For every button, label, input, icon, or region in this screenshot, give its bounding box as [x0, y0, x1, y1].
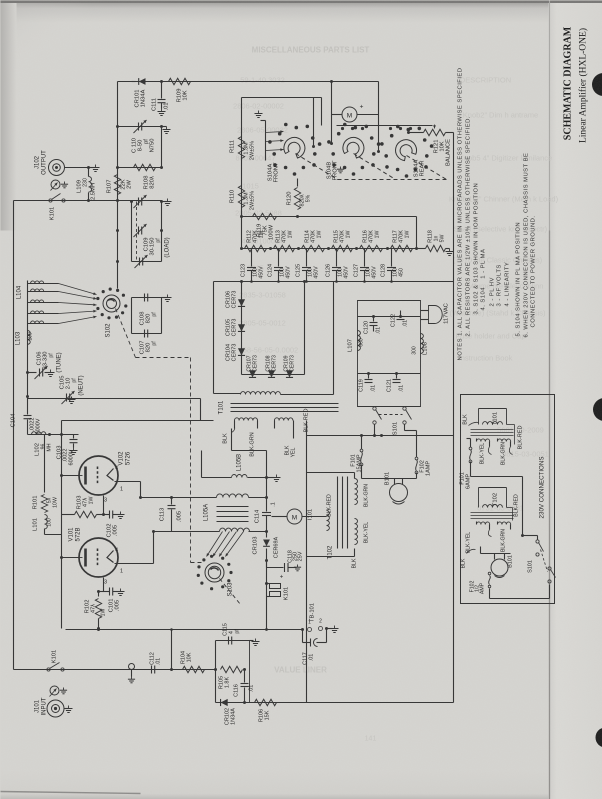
svg-text:M: M — [347, 113, 352, 120]
capacitor C116 — [244, 670, 246, 683]
wire main line y200 — [14, 200, 162, 202]
capacitor C108 box — [131, 298, 133, 334]
T101 core — [231, 403, 339, 405]
230V secondary coils — [477, 522, 490, 525]
svg-text:C119: C119 — [359, 379, 365, 392]
capacitor C106 TUNE variable — [28, 372, 37, 374]
wire cathode V102 — [115, 481, 141, 483]
svg-text:SCHEMATIC DIAGRAM: SCHEMATIC DIAGRAM — [563, 26, 574, 140]
wire R108 row — [118, 167, 162, 169]
svg-text:S103: S103 — [228, 582, 234, 597]
resistor R106 — [255, 699, 277, 705]
svg-text:4 - LINEARITY: 4 - LINEARITY — [505, 262, 511, 307]
hook ground — [129, 664, 135, 670]
svg-text:2: 2 — [319, 619, 322, 625]
inductor L107 — [358, 331, 361, 351]
svg-text:R120: R120 — [287, 192, 293, 206]
ground J101 — [65, 708, 69, 710]
svg-text:230: 230 — [83, 178, 89, 187]
svg-text:T101: T101 — [493, 412, 499, 425]
T102 coils — [355, 479, 358, 505]
wire x241 — [241, 98, 243, 249]
svg-text:V101: V101 — [69, 527, 75, 542]
transformer T102 core — [337, 477, 339, 549]
svg-text:.01: .01 — [309, 654, 315, 662]
S102 gang dashed link — [116, 309, 136, 358]
svg-text:.01: .01 — [156, 658, 162, 665]
S103 dashed — [220, 579, 241, 605]
vertical x306 — [306, 421, 308, 703]
wafer top line — [337, 125, 433, 127]
inductor L104 tapped coil — [27, 281, 29, 344]
svg-text:L103: L103 — [16, 331, 22, 345]
wire filter inner y373 — [358, 373, 421, 375]
svg-text:1: 1 — [120, 487, 123, 493]
svg-text:1W: 1W — [89, 497, 95, 505]
svg-text:.005: .005 — [115, 600, 121, 611]
blower B101 230V — [491, 559, 508, 576]
inductor L105A — [217, 494, 249, 498]
rotary switch S103 — [205, 563, 224, 582]
wafer dashed lines — [296, 154, 338, 180]
svg-text:C127: C127 — [354, 264, 360, 277]
inductor L103 — [28, 331, 31, 345]
svg-text:4: 4 — [115, 466, 118, 472]
svg-text:.005: .005 — [113, 525, 119, 536]
capacitor C124 — [270, 248, 272, 250]
svg-text:J101: J101 — [35, 699, 41, 713]
resistor R113 — [274, 245, 295, 251]
diode CR101 — [132, 81, 136, 83]
wire V101 grid — [103, 578, 105, 592]
meter M101 — [342, 107, 357, 122]
svg-text:.005: .005 — [177, 511, 183, 522]
svg-text:(NEUT): (NEUT) — [79, 375, 85, 395]
svg-text:CR103: CR103 — [253, 536, 259, 554]
switch S101 230V — [536, 540, 539, 543]
ground R118 — [446, 248, 450, 250]
inductor L105B — [232, 475, 248, 478]
punch hole middle — [593, 398, 602, 421]
svg-text:T102: T102 — [328, 545, 334, 559]
svg-text:BLK-GRN: BLK-GRN — [501, 529, 507, 552]
svg-text:450V: 450V — [372, 266, 378, 279]
wire y374 — [242, 374, 305, 376]
svg-text:230V CONNECTIONS: 230V CONNECTIONS — [539, 457, 546, 519]
svg-text:5%: 5% — [306, 194, 312, 202]
svg-text:C125: C125 — [296, 264, 302, 277]
svg-text:CER73: CER73 — [290, 355, 296, 372]
svg-text:L107: L107 — [348, 339, 354, 352]
capacitor C105 NEUT variable — [26, 395, 29, 398]
T102 wires — [354, 473, 356, 479]
T102 230V — [479, 488, 507, 508]
wire right edge x453 — [453, 133, 455, 703]
svg-text:pf: pf — [152, 312, 158, 317]
svg-text:5726: 5726 — [126, 451, 132, 465]
svg-text:BLK-RED: BLK-RED — [518, 426, 524, 450]
svg-text:K101: K101 — [50, 207, 56, 221]
svg-text:.01: .01 — [403, 320, 409, 327]
svg-text:1AMP: 1AMP — [426, 461, 432, 476]
230V primary coils — [477, 439, 490, 442]
capacitor C123 — [241, 248, 243, 250]
svg-text:2.5MH: 2.5MH — [91, 183, 97, 200]
capacitor C120 — [373, 317, 375, 322]
svg-text:10K: 10K — [183, 90, 189, 100]
svg-text:+: + — [360, 104, 364, 111]
svg-text:1N34A: 1N34A — [231, 708, 237, 725]
coil right of I101 — [327, 511, 330, 531]
diode CR107 — [249, 370, 256, 377]
svg-text:1W: 1W — [405, 231, 411, 239]
ground C115 — [232, 640, 258, 642]
svg-text:450V: 450V — [259, 266, 265, 279]
svg-text:BLK-RED: BLK-RED — [327, 494, 333, 517]
vertical x333 bus drop — [333, 282, 335, 395]
svg-text:BLK-YEL: BLK-YEL — [364, 522, 370, 543]
svg-text:REAR: REAR — [420, 160, 426, 176]
resistor R118 — [417, 248, 426, 250]
resistor R119 — [253, 213, 277, 219]
svg-text:S101: S101 — [528, 560, 534, 573]
capacitor C128 — [387, 248, 389, 250]
resistor R104 — [170, 668, 173, 671]
ground C109 — [162, 201, 168, 203]
wire J102 to L109 — [65, 167, 89, 169]
wire bus y216 — [242, 216, 417, 218]
wire C110 row — [118, 126, 162, 128]
ground J102 line — [89, 167, 96, 169]
svg-text:J102: J102 — [35, 155, 41, 169]
wire V102 grid — [103, 496, 105, 515]
wire y434 — [28, 434, 79, 436]
punch hole top — [592, 73, 602, 96]
wire filter inner y316 — [358, 316, 421, 318]
svg-text:100: 100 — [28, 332, 34, 341]
T101 230V — [479, 409, 507, 425]
relay coil K101 — [265, 582, 268, 585]
wire top rail — [118, 81, 379, 83]
svg-text:Linear Amplifier (HXL-ONE): Linear Amplifier (HXL-ONE) — [578, 28, 589, 143]
wire resistor row y248 — [242, 248, 417, 250]
svg-text:.1: .1 — [271, 502, 277, 507]
S103 taps — [207, 532, 223, 557]
resistor R116 — [360, 245, 383, 251]
capacitor C109 variable stack — [131, 202, 133, 262]
svg-text:5W: 5W — [440, 235, 446, 243]
capacitor C122 — [400, 311, 402, 316]
svg-text:6000V: 6000V — [69, 449, 75, 465]
svg-text:BLK: BLK — [223, 433, 229, 444]
svg-text:C122: C122 — [391, 314, 397, 327]
capacitor C118 — [265, 559, 268, 562]
diode CR103 — [266, 532, 268, 538]
transformer T101 secondary — [241, 392, 281, 395]
wire x171 up — [171, 630, 173, 670]
resistor R117 — [391, 245, 413, 251]
wire chassis top y420 — [62, 420, 214, 422]
svg-text:C104: C104 — [11, 413, 17, 428]
svg-text:6. WHEN 230V CONNECTION IS USE: 6. WHEN 230V CONNECTION IS USED, CHASSIS… — [524, 153, 530, 338]
svg-text:R111: R111 — [230, 140, 236, 153]
resistor R109 — [169, 78, 191, 84]
wire x304 — [304, 282, 306, 375]
svg-text:.01: .01 — [164, 102, 170, 110]
svg-text:C123: C123 — [241, 264, 247, 277]
capacitor C111 — [161, 82, 163, 99]
svg-text:C111: C111 — [152, 98, 158, 111]
svg-text:.01: .01 — [399, 385, 405, 392]
resistor R112 — [245, 245, 267, 251]
svg-text:M: M — [292, 515, 297, 522]
fuse F102 — [415, 457, 418, 460]
svg-text:S102: S102 — [106, 323, 112, 338]
wire y531 — [154, 531, 220, 533]
C115/R105 box — [216, 641, 250, 703]
svg-text:10K: 10K — [187, 652, 193, 662]
svg-text:117VAC: 117VAC — [444, 303, 450, 324]
wire y669 — [14, 669, 216, 671]
svg-text:BLK-YEL: BLK-YEL — [480, 443, 486, 464]
ground wafer2 — [340, 167, 342, 170]
tube V101 — [79, 538, 118, 577]
svg-text:3. S102 & S103 SHOWN IN I: 3. S102 & S103 SHOWN IN IOM POSITION — [474, 183, 480, 315]
svg-text:47ƛ: 47ƛ — [91, 604, 97, 613]
svg-text:NOTES 1. ALL CAPACITOR VALUE: NOTES 1. ALL CAPACITOR VALUES ARE IN MIC… — [458, 68, 464, 361]
capacitor C125 — [298, 248, 300, 250]
svg-text:CER73: CER73 — [232, 291, 238, 309]
svg-text:S101: S101 — [393, 422, 399, 436]
capacitor C103 — [73, 435, 75, 439]
svg-text:OUTPUT: OUTPUT — [42, 150, 48, 175]
ground L105B — [267, 477, 275, 479]
svg-text:B101: B101 — [508, 555, 514, 568]
fuse F101 — [360, 449, 363, 452]
ground C110 — [162, 126, 167, 128]
svg-text:3: 3 — [104, 580, 107, 586]
ground TB101 — [327, 628, 333, 630]
capacitor C117 — [302, 630, 304, 643]
ground C108 — [162, 297, 168, 299]
svg-text:R101: R101 — [33, 496, 39, 510]
svg-text:820ƛ: 820ƛ — [150, 176, 156, 189]
svg-text:.01: .01 — [376, 327, 382, 334]
wafer S104A FRONT — [313, 152, 317, 156]
capacitor C110 variable — [138, 123, 140, 131]
wire cathode V101 — [115, 563, 154, 565]
coil secondary row — [220, 528, 250, 531]
svg-text:L108: L108 — [423, 342, 429, 355]
svg-text:BLK: BLK — [352, 558, 358, 568]
diode CR102 — [221, 699, 228, 706]
jack J101 INPUT — [47, 700, 64, 717]
svg-text:R107: R107 — [107, 180, 113, 194]
svg-text:.01: .01 — [249, 685, 255, 693]
svg-text:pf: pf — [152, 341, 158, 346]
svg-text:1W: 1W — [101, 609, 107, 617]
switch S101 — [373, 407, 376, 410]
ground C106 — [45, 372, 51, 374]
wire y629 — [66, 629, 303, 631]
wire bottom edge — [216, 702, 454, 704]
svg-text:1W: 1W — [259, 231, 265, 239]
svg-text:C124: C124 — [268, 264, 274, 277]
svg-text:BLK-RED: BLK-RED — [514, 494, 520, 517]
wire J101 к left border — [13, 669, 15, 671]
svg-text:pf: pf — [235, 629, 241, 634]
svg-text:YEL: YEL — [291, 447, 297, 457]
jack J102 OUTPUT — [49, 160, 65, 176]
capacitor C115 — [228, 637, 230, 645]
inductor L109 — [89, 177, 92, 193]
svg-text:CER73: CER73 — [253, 355, 259, 372]
svg-text:C128: C128 — [381, 264, 387, 277]
svg-text:T101: T101 — [219, 400, 225, 414]
svg-text:CONNECTED TO POWER GROUND.: CONNECTED TO POWER GROUND. — [531, 216, 537, 328]
svg-text:C121: C121 — [387, 379, 393, 392]
ground C118 — [297, 565, 299, 568]
svg-text:INPUT: INPUT — [42, 697, 48, 715]
svg-text:(LOAD): (LOAD) — [165, 237, 171, 257]
svg-text:CER73: CER73 — [272, 355, 278, 372]
wire left border — [13, 201, 15, 670]
capacitor C121 — [396, 374, 398, 379]
svg-text:L101: L101 — [33, 518, 39, 531]
svg-text:pf: pf — [49, 353, 55, 358]
svg-text:C113: C113 — [160, 508, 166, 521]
wafer S104A REAR — [425, 154, 429, 158]
svg-text:N750: N750 — [150, 139, 156, 153]
svg-text:2. ALL RESISTORS ARE 1/2W ±10%: 2. ALL RESISTORS ARE 1/2W ±10% UNLESS OT… — [466, 116, 472, 336]
wire plate V101 — [62, 557, 80, 559]
svg-text:C114: C114 — [255, 509, 261, 523]
svg-text:100: 100 — [47, 518, 53, 527]
wire S102 taps — [27, 344, 29, 399]
wire x213 down — [213, 282, 215, 394]
resistor R105 — [221, 666, 243, 672]
svg-text:1W: 1W — [375, 231, 381, 239]
capacitor C112 — [151, 666, 153, 674]
svg-text:C116: C116 — [234, 684, 240, 697]
plug 117VAC — [421, 310, 429, 312]
svg-text:.01: .01 — [371, 385, 377, 392]
capacitor C104 — [27, 399, 29, 415]
svg-text:CER73: CER73 — [232, 344, 238, 362]
svg-text:I101: I101 — [308, 509, 314, 520]
svg-text:(TUNE): (TUNE) — [57, 352, 63, 372]
capacitor C114 — [266, 498, 268, 512]
svg-text:572B: 572B — [76, 527, 82, 541]
svg-text:K101: K101 — [52, 650, 58, 664]
svg-text:15K: 15K — [265, 710, 271, 720]
ground C111 — [161, 103, 163, 109]
svg-text:R110: R110 — [230, 190, 236, 203]
wire left box vertical x61 — [61, 421, 63, 629]
svg-text:C126: C126 — [326, 264, 332, 277]
wire box top y97 — [242, 97, 322, 99]
capacitor C127 — [356, 248, 358, 250]
svg-text:BLK: BLK — [463, 414, 469, 425]
svg-text:100W: 100W — [269, 224, 275, 240]
230V box — [461, 395, 555, 604]
svg-text:450V: 450V — [314, 266, 320, 279]
svg-text:2 - PL HV: 2 - PL HV — [490, 277, 496, 306]
terminal TB-101 — [301, 628, 304, 631]
capacitor C102 — [109, 511, 111, 519]
wire y497 to L105A — [141, 497, 217, 499]
svg-text:25V: 25V — [298, 551, 304, 561]
resistor R108 — [134, 164, 156, 170]
wire bus y281 — [214, 281, 454, 283]
fuse F101 230V — [469, 447, 472, 450]
capacitor C101 — [99, 591, 110, 593]
wire vertical x200 — [200, 399, 202, 421]
ground top of tubes — [71, 397, 73, 400]
wire x378 corner — [378, 82, 380, 115]
phone jack symbol — [51, 180, 60, 189]
ground wafer1 — [261, 120, 266, 122]
svg-text:1W: 1W — [317, 231, 323, 239]
resistor R107 — [114, 175, 120, 195]
svg-text:pf: pf — [156, 238, 162, 243]
resistor R114 — [302, 245, 325, 251]
svg-text:pf: pf — [72, 378, 78, 383]
wire S101 connections — [374, 425, 376, 436]
svg-text:BLK-GRN: BLK-GRN — [364, 484, 370, 507]
wire left vertical to main line — [117, 82, 119, 201]
svg-text:2W: 2W — [127, 180, 133, 189]
capacitor C113 — [171, 498, 173, 505]
punch hole bottom — [596, 728, 602, 748]
svg-text:C120: C120 — [364, 321, 370, 334]
diode CR108 — [268, 370, 275, 377]
lamp I101 — [287, 509, 302, 524]
wire L105A right — [249, 497, 267, 499]
svg-text:BLK-GRN: BLK-GRN — [501, 442, 507, 465]
svg-text:BALANCE: BALANCE — [446, 139, 452, 166]
svg-text:V102: V102 — [119, 451, 125, 466]
inductor L108 — [421, 334, 424, 354]
svg-text:L104: L104 — [17, 285, 23, 299]
svg-text:2W±5%: 2W±5% — [250, 191, 256, 210]
svg-text:K101: K101 — [284, 587, 290, 601]
wire meter to wafer3 — [378, 115, 380, 152]
svg-text:1: 1 — [120, 569, 123, 575]
wire T101 primary drops — [231, 429, 233, 451]
wire y398 — [28, 398, 201, 400]
T101 230V core — [471, 429, 514, 431]
diode CR105 — [238, 324, 245, 331]
T101 primary coils — [235, 418, 258, 421]
svg-text:CER69A: CER69A — [274, 536, 280, 558]
wafer S104B FRONT — [372, 152, 376, 156]
svg-text:T102: T102 — [493, 493, 499, 506]
wafer wires — [265, 121, 267, 161]
diode CR109 — [286, 370, 293, 377]
svg-text:L105A: L105A — [204, 504, 210, 521]
svg-text:5. S104 SHOWN IN PL MA: 5. S104 SHOWN IN PL MA POSITION — [516, 222, 522, 337]
svg-text:4: 4 — [115, 548, 118, 554]
filter box — [358, 301, 421, 407]
resistor R111 — [238, 137, 244, 159]
vertical x331 — [331, 82, 333, 126]
230V bottom wire — [489, 589, 491, 599]
svg-text:4. S104 1 - PL MA: 4. S104 1 - PL MA — [481, 249, 487, 311]
T102 230V core — [471, 512, 514, 514]
wire x416 — [416, 217, 418, 249]
wafer1 feed — [313, 98, 315, 147]
